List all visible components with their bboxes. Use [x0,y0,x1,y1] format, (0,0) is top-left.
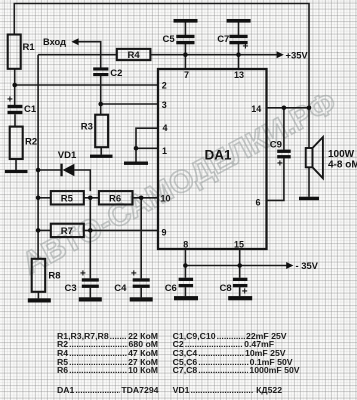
resistor R3 [95,115,108,148]
svg-text:R4: R4 [128,50,141,61]
wire R1 bottom to pin 2 [15,69,158,85]
arrow +35V [277,51,284,58]
watermark АВТО-САМОДЕЛКИ.РФ [16,84,342,281]
resistor R4 [117,49,151,60]
wire C1 to R2 [14,114,16,126]
svg-text:C9: C9 [270,140,282,151]
wire C8 stubs [239,266,241,297]
svg-text:4-8 оМ: 4-8 оМ [328,160,357,171]
node R1/C1 pin2 [12,83,17,88]
ground below R2 [5,170,28,173]
capacitor C3 plates [82,278,99,281]
svg-text:C8: C8 [220,283,232,294]
wire R7 right to pin 9 [84,229,158,231]
wire R3 bottom to ground [100,147,102,155]
capacitor C9 plates [277,150,291,153]
wire R2 bottom to ground [15,159,17,170]
wire C4 bottom stub [140,288,142,298]
svg-text:C1: C1 [24,104,37,115]
input arrow [71,38,78,45]
svg-text:C7: C7 [217,34,229,45]
wire input to C2 [78,42,101,68]
svg-text:6: 6 [255,198,260,208]
resistor R1 [8,35,21,69]
svg-text:+: + [242,287,248,298]
arrow -35V [286,262,293,269]
wire VD1 anode [38,169,61,171]
op-amp DA1 TDA7294 [158,69,267,249]
wire R4 left to control rail [38,54,117,56]
svg-text:9: 9 [161,228,166,238]
wire R8 bottom stub [37,292,39,299]
resistor R7 [51,224,84,237]
wire R4 right / +35V rail [150,54,277,56]
svg-text:R6: R6 [109,194,121,205]
wire feedback loop from output to R1 top [14,4,309,108]
ground below C3 [79,297,102,301]
svg-text:DA1: DA1 [205,148,232,163]
wire R6 right to pin 10 [133,197,159,199]
speaker cone [313,137,323,178]
svg-text:8: 8 [183,239,188,249]
capacitor C6 plates [179,278,194,281]
node C5 rail [183,52,188,57]
wire C9 top stub [283,108,285,150]
node R7 left [36,228,41,233]
ground below C6 [174,296,198,300]
wire pin 7 stub [184,55,186,69]
svg-text:R3: R3 [81,122,93,133]
ground above C7 [227,19,251,23]
node C7 rail [236,52,241,57]
wire VD1 cathode corner down [74,170,90,191]
ground for pins 4,1 [124,162,148,165]
wire pin 1 [136,148,158,161]
wire control rail vertical [37,55,39,259]
svg-text:3: 3 [162,100,167,110]
wire C6 stubs [184,266,186,297]
wire R3 top stub [100,104,102,115]
svg-text:2: 2 [162,81,167,91]
svg-text:+: + [277,159,283,170]
wire R5 left [38,197,51,199]
svg-text:R1: R1 [23,42,36,53]
svg-text:C5: C5 [163,34,176,45]
wire C9 bottom to pin 6 [267,158,284,200]
wire -35V rail [185,265,286,267]
svg-text:C4: C4 [114,283,127,294]
svg-text:4: 4 [162,123,167,133]
diode VD1 [63,164,75,177]
ground above C5 [174,19,198,23]
svg-text:- 35V: - 35V [296,260,319,271]
node R7 right [88,228,93,233]
ground below C4 [130,297,153,301]
wire C2 to pin 3 [101,76,158,104]
node pin1 ground link [134,146,139,151]
wire speaker top [308,108,310,148]
svg-text:R2: R2 [25,137,37,148]
wire R5R6 node down to R7 node and C3 [89,198,91,279]
capacitor C4 plates [133,278,150,281]
svg-text:Вход: Вход [43,37,66,47]
svg-text:C3: C3 [65,283,77,294]
svg-text:+35V: +35V [286,49,309,60]
resistor R6 [99,191,133,204]
capacitor C2 plates [93,67,108,70]
svg-text:+: + [131,269,137,280]
svg-text:7: 7 [184,70,189,80]
node output C9 [282,106,287,111]
wire pin 4 to ground link [136,128,158,148]
node pin 15 rail [237,263,242,268]
svg-text:100W: 100W [328,149,355,160]
resistor R2 [10,127,23,159]
ground below R8 [28,298,51,302]
wire pin 14 output [267,107,310,109]
svg-text:C2: C2 [110,68,122,79]
svg-text:R7: R7 [61,226,73,237]
speaker driver box [306,148,313,167]
wire C5 stubs [184,22,186,54]
wire R5-R6 link [84,197,99,199]
wire pin 13 stub [238,55,240,69]
svg-text:VD1: VD1 [58,150,77,161]
node output speaker [307,106,312,111]
wire C1 stub [14,85,16,105]
ground below speaker [299,197,319,201]
node R5 left [36,196,41,201]
svg-text:АВТО-САМОДЕЛКИ.РФ: АВТО-САМОДЕЛКИ.РФ [16,84,342,281]
wire C7 stubs [238,22,240,54]
capacitor C5 plates [176,35,194,38]
svg-text:14: 14 [251,104,261,114]
wire pin 15 stub [239,249,241,266]
svg-text:+: + [7,95,13,106]
svg-text:C6: C6 [165,283,177,294]
node VD1 rail [36,168,41,173]
parts table left column [57,331,158,341]
wire speaker bottom to ground [308,167,310,197]
wire pin 8 stub [184,249,186,266]
resistor R5 [51,191,84,204]
node C2/R3 pin3 [98,102,103,107]
svg-text:1: 1 [162,146,167,156]
wire R7 left [38,229,51,231]
capacitor C8 plates [233,278,248,281]
node R6/pin10/C4 [139,196,144,201]
ground below R3 [90,155,113,158]
svg-text:R5: R5 [61,194,74,205]
node R5/R6 [88,196,93,201]
capacitor C1 plates [8,105,23,108]
capacitor C7 plates [229,35,247,38]
svg-text:10: 10 [160,194,170,204]
svg-text:R8: R8 [48,271,60,282]
wire C4 branch vertical [140,198,142,279]
svg-text:+: + [243,42,249,53]
svg-text:+: + [80,269,86,280]
resistor R8 [32,259,46,292]
svg-text:13: 13 [234,70,244,80]
ground below C8 [228,296,252,300]
wire C3 bottom stub [89,288,91,298]
parts table right column [173,331,287,341]
node pin 8 rail [183,263,188,268]
svg-text:15: 15 [234,239,244,249]
